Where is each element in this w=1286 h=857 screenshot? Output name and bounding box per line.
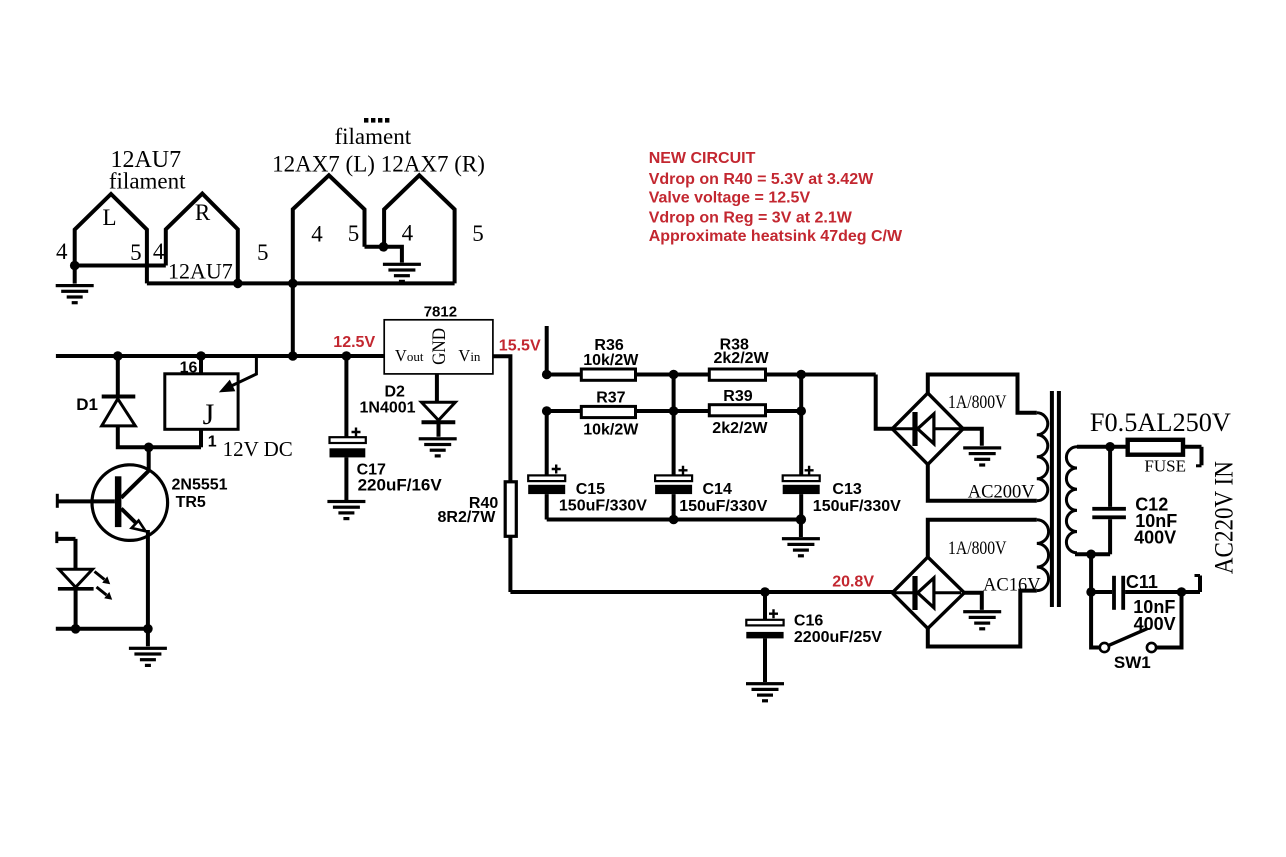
- wire winding bottom to BR1: [928, 465, 1037, 501]
- junction dot primary bottom: [1086, 550, 1096, 560]
- capacitor C15 plus: [552, 465, 561, 474]
- svg-text:SW1: SW1: [1114, 653, 1151, 672]
- wire BR1 top to winding: [928, 375, 1037, 413]
- relay actuation arrow: [227, 357, 256, 389]
- svg-text:D2: D2: [385, 384, 406, 401]
- transformer winding AC200V: [1037, 413, 1048, 501]
- capacitor C13 plus: [805, 466, 814, 475]
- svg-text:TR5: TR5: [176, 494, 206, 511]
- emitter / LED cathode rail: [56, 627, 148, 631]
- junction dot: [796, 514, 806, 524]
- transformer primary winding: [1066, 447, 1077, 553]
- collector wire: [121, 447, 149, 498]
- svg-text:R37: R37: [596, 390, 625, 407]
- junction dot node D1: [113, 351, 123, 361]
- svg-text:4: 4: [153, 239, 165, 264]
- LED terminal tick: [55, 532, 58, 544]
- junction dot: [1086, 587, 1096, 597]
- svg-text:8R2/7W: 8R2/7W: [438, 509, 497, 526]
- svg-text:C16: C16: [794, 612, 823, 629]
- regulator GND pin wire: [435, 374, 439, 402]
- svg-text:1A/800V: 1A/800V: [948, 539, 1007, 559]
- diode D2: [422, 402, 456, 420]
- LED D3: [59, 569, 93, 587]
- junction dot collector node: [144, 443, 154, 453]
- junction dot emitter: [143, 624, 153, 634]
- svg-text:4: 4: [402, 221, 414, 246]
- wire D1 to node: [118, 426, 201, 447]
- column wire C13: [799, 375, 803, 476]
- svg-text:GND: GND: [429, 328, 450, 365]
- capacitor bottom rail: [547, 518, 805, 522]
- label ....: [364, 118, 389, 123]
- svg-text:12AX7 (L): 12AX7 (L): [272, 151, 375, 176]
- switch SW1 right branch: [1156, 592, 1181, 648]
- junction dot SW1 right: [1177, 587, 1187, 597]
- svg-text:150uF/330V: 150uF/330V: [813, 498, 901, 515]
- svg-text:filament: filament: [334, 124, 411, 149]
- svg-text:AC16V: AC16V: [983, 576, 1041, 596]
- svg-text:C11: C11: [1126, 572, 1158, 592]
- svg-text:AC220V IN: AC220V IN: [1209, 461, 1238, 574]
- junction dot: [379, 242, 389, 252]
- svg-text:2200uF/25V: 2200uF/25V: [794, 629, 882, 646]
- resistor R38: [709, 369, 765, 380]
- ground (C17): [327, 500, 365, 520]
- svg-text:12V DC: 12V DC: [223, 437, 293, 461]
- J pin16 wire: [199, 356, 203, 374]
- svg-text:7812: 7812: [424, 304, 457, 321]
- ground (12AU7 pin 4): [56, 284, 94, 304]
- tube V1 12AU7-R filament envelope: [166, 194, 238, 284]
- svg-text:20.8V: 20.8V: [832, 574, 874, 591]
- svg-text:Vdrop on R40 = 5.3V at 3.42W: Vdrop on R40 = 5.3V at 3.42W: [649, 171, 874, 188]
- svg-text:2N5551: 2N5551: [172, 476, 228, 493]
- BR1 diode: [895, 427, 961, 430]
- base wire: [57, 499, 115, 503]
- svg-text:2k2/2W: 2k2/2W: [712, 420, 768, 437]
- transistor base bar: [115, 476, 122, 527]
- emitter wire with arrow: [121, 509, 139, 527]
- wire pin4 to ground: [384, 247, 402, 263]
- wire to C12: [1108, 447, 1112, 507]
- junction dot: [233, 279, 243, 289]
- tube V1 12AU7-L filament envelope: [75, 194, 147, 283]
- transformer core line 1: [1050, 391, 1054, 607]
- wire pin4 L to ground: [73, 266, 77, 284]
- AC terminal bottom: [1195, 574, 1201, 577]
- svg-text:C15: C15: [576, 481, 605, 498]
- C11 row wire right: [1125, 590, 1200, 594]
- junction dot node filament feed: [288, 351, 298, 361]
- svg-text:12AU7: 12AU7: [168, 259, 233, 284]
- svg-text:C13: C13: [832, 481, 861, 498]
- relay J box: [165, 374, 238, 430]
- svg-text:F0.5AL250V: F0.5AL250V: [1090, 408, 1231, 437]
- junction dot LED: [71, 624, 81, 634]
- capacitor C11: [1112, 576, 1116, 610]
- resistor R39: [709, 405, 765, 416]
- filament supply bus: [147, 281, 455, 285]
- bridge rectifier BR2: [892, 557, 964, 629]
- fuse F1: [1128, 440, 1183, 455]
- junction dots row1: [542, 370, 552, 380]
- junction dot: [288, 279, 298, 289]
- wire rail to C17: [344, 356, 348, 437]
- wire filament bus to main rail: [291, 283, 295, 356]
- wire BR2 top to winding: [928, 520, 1037, 557]
- svg-text:Vout: Vout: [395, 346, 424, 365]
- svg-text:D1: D1: [76, 395, 98, 414]
- transformer winding AC16V: [1037, 520, 1049, 591]
- junction dot node C17: [342, 351, 352, 361]
- capacitor C15: [528, 475, 565, 481]
- junction dot: [669, 515, 679, 525]
- J pin1 wire: [199, 429, 203, 447]
- svg-text:filament: filament: [109, 168, 186, 193]
- wire winding bottom to BR2: [928, 591, 1037, 647]
- ground (12AX7 filament): [383, 263, 421, 283]
- svg-text:5: 5: [348, 221, 360, 246]
- wire Vin to R40: [493, 356, 511, 482]
- ground (C13 rail): [782, 537, 820, 557]
- ladder row 2 wire: [547, 409, 802, 413]
- svg-text:Valve voltage = 12.5V: Valve voltage = 12.5V: [649, 189, 811, 206]
- BR2 diode: [895, 591, 962, 594]
- svg-text:4: 4: [311, 222, 323, 247]
- junction dot node J16: [196, 351, 206, 361]
- LED light arrow 1: [95, 572, 105, 580]
- transformer core line 2: [1057, 391, 1061, 607]
- column wire C14: [672, 375, 676, 476]
- 20.8V rail: [510, 590, 893, 594]
- capacitor C14 plus: [679, 466, 688, 475]
- capacitor C17 plus: [352, 428, 361, 437]
- svg-text:12.5V: 12.5V: [333, 334, 375, 351]
- junction dot pin4 L: [70, 261, 80, 271]
- column wire C15: [545, 411, 549, 475]
- primary bottom wire: [1077, 553, 1110, 555]
- svg-text:Approximate heatsink 47deg C/W: Approximate heatsink 47deg C/W: [649, 228, 903, 245]
- svg-text:12AX7 (R): 12AX7 (R): [381, 151, 485, 176]
- svg-text:2k2/2W: 2k2/2W: [714, 350, 770, 367]
- svg-text:J: J: [203, 398, 215, 431]
- resistor R36: [581, 369, 635, 380]
- svg-text:4: 4: [56, 239, 68, 264]
- svg-text:5: 5: [472, 221, 484, 246]
- base terminal tick: [56, 494, 59, 508]
- ground (emitter): [129, 647, 167, 667]
- tube V3 12AX7-R filament envelope: [384, 175, 455, 283]
- svg-text:C14: C14: [703, 481, 732, 498]
- junction dots row2: [542, 406, 552, 416]
- wire 12AX7 pin5 to pin4 link: [365, 245, 385, 249]
- C11 row wire left: [1091, 590, 1112, 594]
- wire R40 to 20.8V rail: [508, 536, 512, 592]
- svg-text:1A/800V: 1A/800V: [948, 393, 1007, 413]
- switch SW1 left branch: [1091, 592, 1100, 648]
- junction dot C12 top: [1105, 442, 1115, 452]
- svg-text:5: 5: [130, 240, 142, 265]
- AC terminal top: [1200, 447, 1204, 466]
- svg-text:5: 5: [257, 240, 269, 265]
- SW1 contact circle right: [1147, 643, 1156, 652]
- SW1 contact circle left: [1100, 643, 1109, 652]
- svg-text:R: R: [195, 200, 211, 225]
- svg-text:400V: 400V: [1134, 527, 1176, 547]
- wire BR1 to ground: [963, 429, 982, 446]
- transistor TR5 circle: [92, 465, 168, 541]
- ladder row 1 wire: [547, 373, 876, 377]
- ground (C16): [746, 682, 784, 702]
- ground (D2): [419, 437, 457, 457]
- resistor R40: [505, 482, 516, 537]
- svg-text:R39: R39: [723, 388, 752, 405]
- wire to ground: [146, 629, 150, 647]
- capacitor C16: [746, 620, 783, 626]
- svg-text:220uF/16V: 220uF/16V: [358, 476, 443, 495]
- svg-text:AC200V: AC200V: [968, 483, 1035, 503]
- capacitor C17: [330, 437, 366, 443]
- main 12.5V rail: [56, 354, 384, 358]
- svg-text:16: 16: [180, 360, 198, 377]
- capacitor C16 plus: [769, 609, 778, 618]
- wire rail to D1: [116, 356, 120, 395]
- capacitor C14: [655, 475, 692, 481]
- wire to ground: [799, 520, 803, 538]
- svg-text:FUSE: FUSE: [1144, 457, 1186, 476]
- regulator U1 7812 box: [384, 320, 493, 374]
- wire row1 to bridge BR1: [876, 375, 893, 429]
- resistor R37: [581, 406, 635, 417]
- wire pin4(L) to pin4(R): [75, 264, 166, 268]
- wire rail to C16: [763, 592, 767, 620]
- LED light arrow 2: [97, 587, 107, 595]
- svg-text:15.5V: 15.5V: [499, 337, 541, 354]
- capacitor C13: [783, 475, 820, 481]
- svg-text:10k/2W: 10k/2W: [583, 422, 639, 439]
- LED anode wire: [57, 539, 76, 569]
- primary top wire: [1077, 445, 1202, 449]
- svg-text:L: L: [102, 205, 116, 230]
- SW1 lever: [1109, 629, 1147, 646]
- svg-text:150uF/330V: 150uF/330V: [559, 498, 647, 515]
- svg-text:10k/2W: 10k/2W: [583, 352, 639, 369]
- tube V2 12AX7-L filament envelope: [293, 175, 365, 283]
- svg-text:NEW CIRCUIT: NEW CIRCUIT: [649, 150, 756, 167]
- ground (BR1): [963, 446, 1001, 466]
- stub above R36 row: [545, 326, 549, 375]
- bridge rectifier BR1: [892, 393, 963, 465]
- svg-text:150uF/330V: 150uF/330V: [679, 498, 767, 515]
- svg-text:1N4001: 1N4001: [360, 400, 416, 417]
- svg-text:Vdrop on Reg = 3V at 2.1W: Vdrop on Reg = 3V at 2.1W: [649, 209, 853, 226]
- capacitor C12: [1092, 507, 1126, 511]
- diode D1: [102, 395, 136, 399]
- svg-text:1: 1: [208, 434, 217, 451]
- wire to C11 row: [1089, 554, 1093, 592]
- svg-text:Vin: Vin: [458, 346, 481, 365]
- wire BR2 to ground: [964, 593, 982, 610]
- ground (BR2): [963, 610, 1001, 630]
- junction dot C16: [760, 587, 770, 597]
